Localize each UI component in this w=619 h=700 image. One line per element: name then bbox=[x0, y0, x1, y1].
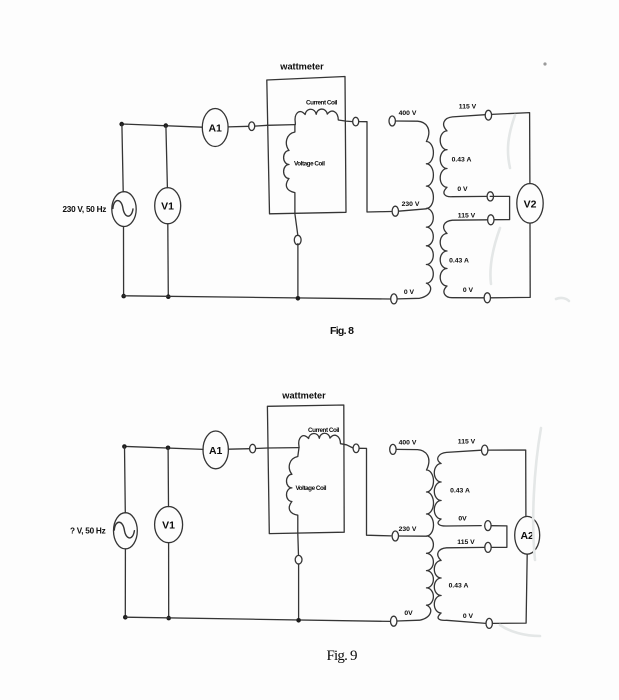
terminal 400V fig8 bbox=[389, 116, 395, 126]
transformer secondary winding 2 fig9 bbox=[434, 547, 486, 623]
wire left vertical upper fig8 bbox=[122, 124, 123, 192]
terminal 0V sec1 fig9 bbox=[485, 521, 491, 531]
terminal 0V sec1 fig8 bbox=[487, 192, 493, 201]
transformer primary coil fig9 bbox=[396, 449, 433, 621]
svg-text:Fig. 9: Fig. 9 bbox=[327, 648, 358, 664]
wire current coil terminal to 230V tap fig8 bbox=[359, 122, 391, 212]
node junction V1-bottom fig9 bbox=[166, 616, 171, 621]
svg-text:230 V, 50 Hz: 230 V, 50 Hz bbox=[63, 205, 107, 214]
wire 230V tap fig9 bbox=[399, 535, 427, 537]
node junction bottom-left fig8 bbox=[121, 294, 126, 299]
svg-text:wattmeter: wattmeter bbox=[281, 391, 326, 401]
svg-text:0.43 A: 0.43 A bbox=[449, 258, 469, 265]
wire bottom rail fig9 bbox=[125, 617, 390, 621]
terminal below wattmeter fig8 bbox=[294, 235, 301, 244]
terminal after A1 fig8 bbox=[249, 122, 255, 131]
current coil W1 fig8 bbox=[295, 99, 353, 124]
svg-text:0 V: 0 V bbox=[457, 186, 468, 193]
svg-text:V1: V1 bbox=[161, 201, 174, 213]
svg-text:230 V: 230 V bbox=[402, 201, 420, 208]
current coil W2 fig9 bbox=[299, 427, 353, 448]
wire A1 to terminal fig8 bbox=[228, 125, 249, 128]
node junction bottom-left fig9 bbox=[123, 615, 128, 620]
voltmeter V2 fig8 bbox=[517, 184, 543, 224]
svg-text:? V, 50 Hz: ? V, 50 Hz bbox=[70, 526, 106, 535]
wire A1 to terminal fig9 bbox=[228, 448, 249, 451]
wire V1 bottom vertical fig8 bbox=[167, 224, 170, 297]
svg-text:0 V: 0 V bbox=[463, 613, 474, 620]
svg-text:V1: V1 bbox=[162, 520, 175, 532]
terminal current coil output fig9 bbox=[353, 444, 359, 453]
svg-text:400 V: 400 V bbox=[399, 110, 417, 117]
terminal 400V fig9 bbox=[390, 444, 396, 454]
wire voltage coil to bottom rail fig8 bbox=[297, 244, 299, 298]
svg-text:0.43 A: 0.43 A bbox=[449, 583, 469, 590]
wire link sec1-0V to sec2-115V fig9 bbox=[491, 526, 507, 548]
wire V1 top vertical fig8 bbox=[166, 126, 168, 188]
transformer secondary winding 1 fig9 bbox=[434, 450, 481, 526]
transformer secondary winding 1 fig8 bbox=[440, 115, 487, 197]
svg-text:0 V: 0 V bbox=[404, 289, 415, 296]
terminal after A1 fig9 bbox=[250, 444, 256, 453]
wire terminal to wattmeter fig9 bbox=[256, 447, 268, 450]
voltmeter V1 fig9 bbox=[155, 506, 183, 542]
wire V2 top branch fig8 bbox=[492, 113, 530, 184]
wire 230V tap fig8 bbox=[399, 209, 427, 211]
svg-text:Voltage Coil: Voltage Coil bbox=[296, 485, 327, 492]
ac source G1 230V 50Hz bbox=[112, 192, 136, 227]
svg-text:Current Coil: Current Coil bbox=[308, 427, 340, 434]
svg-text:115 V: 115 V bbox=[458, 213, 476, 220]
terminal 115V sec2 fig8 bbox=[488, 215, 494, 225]
node junction V1-top fig9 bbox=[166, 446, 171, 451]
terminal below wattmeter fig9 bbox=[295, 555, 302, 564]
scan speck artifact bbox=[543, 62, 546, 65]
wire left vertical upper fig9 bbox=[124, 447, 127, 513]
svg-text:0V: 0V bbox=[458, 516, 467, 523]
terminal 0V sec2 fig8 bbox=[484, 293, 490, 303]
svg-text:Fig. 8: Fig. 8 bbox=[330, 325, 354, 337]
svg-text:115 V: 115 V bbox=[459, 103, 477, 110]
wire voltage coil to bottom rail fig9 bbox=[298, 564, 300, 620]
svg-text:wattmeter: wattmeter bbox=[279, 62, 324, 72]
wire wattmeter input fig8 bbox=[267, 124, 295, 127]
wattmeter box fig9 bbox=[267, 405, 344, 534]
transformer primary coil fig8 bbox=[395, 121, 433, 299]
svg-text:0 V: 0 V bbox=[463, 287, 474, 294]
svg-text:0.43 A: 0.43 A bbox=[452, 157, 472, 164]
wire top rail fig8 bbox=[122, 124, 203, 127]
wire link sec1-0V to sec2-115V fig8 bbox=[490, 196, 509, 219]
terminal 115V sec1 fig9 bbox=[482, 445, 488, 455]
wire current coil terminal to 230V tap fig9 bbox=[359, 448, 391, 536]
wire A2 top branch fig9 bbox=[488, 450, 526, 517]
terminal 0V sec2 fig9 bbox=[486, 618, 492, 628]
svg-text:230 V: 230 V bbox=[399, 526, 417, 533]
node junction top-left fig9 bbox=[122, 444, 127, 449]
svg-text:115 V: 115 V bbox=[458, 439, 476, 446]
wire left vertical lower fig9 bbox=[124, 549, 126, 617]
ammeter A2 fig9 bbox=[515, 516, 540, 554]
ac source G2 ?V 50Hz bbox=[114, 513, 138, 549]
wattmeter box fig8 bbox=[267, 77, 346, 214]
voltage coil W1 fig8 bbox=[284, 125, 326, 236]
wire bottom rail fig8 bbox=[124, 296, 391, 299]
node junction V1-top fig8 bbox=[164, 123, 169, 128]
svg-text:0V: 0V bbox=[404, 610, 413, 617]
wire A2 bottom branch fig9 bbox=[492, 554, 527, 623]
wire V1 top vertical fig9 bbox=[167, 448, 169, 507]
terminal 115V sec1 fig8 bbox=[485, 110, 491, 120]
node junction top-left fig8 bbox=[119, 122, 124, 127]
scan smudge arcs bbox=[490, 115, 569, 636]
transformer secondary winding 2 fig8 bbox=[440, 220, 487, 298]
voltmeter V1 fig8 bbox=[155, 188, 181, 224]
terminal 0V primary fig8 bbox=[391, 294, 397, 304]
svg-text:Current Coil: Current Coil bbox=[306, 99, 338, 106]
terminal 230V fig9 bbox=[392, 531, 398, 541]
voltage coil W2 fig9 bbox=[287, 448, 327, 556]
terminal 115V sec2 fig9 bbox=[485, 542, 491, 552]
svg-text:400 V: 400 V bbox=[399, 440, 417, 447]
wire terminal to wattmeter fig8 bbox=[255, 124, 268, 127]
node junction voltage-coil bottom fig9 bbox=[296, 618, 301, 623]
wire wattmeter input fig9 bbox=[268, 447, 299, 449]
svg-text:V2: V2 bbox=[524, 198, 537, 210]
ammeter A1 fig8 bbox=[202, 109, 228, 147]
node junction V1-bottom fig8 bbox=[166, 294, 171, 299]
terminal 230V fig8 bbox=[392, 206, 398, 216]
wire V2 bottom branch fig8 bbox=[491, 223, 531, 298]
svg-text:A1: A1 bbox=[209, 445, 223, 457]
wire top rail fig9 bbox=[124, 446, 203, 449]
svg-text:A1: A1 bbox=[208, 122, 222, 134]
svg-text:115 V: 115 V bbox=[457, 539, 475, 546]
terminal current coil output fig8 bbox=[353, 117, 359, 126]
terminal 0V primary fig9 bbox=[391, 616, 397, 626]
wire left vertical lower fig8 bbox=[123, 227, 125, 297]
wire V1 bottom vertical fig9 bbox=[168, 543, 170, 618]
node junction voltage-coil bottom fig8 bbox=[296, 296, 301, 301]
svg-text:0.43 A: 0.43 A bbox=[450, 488, 470, 495]
svg-text:Voltage Coil: Voltage Coil bbox=[294, 160, 325, 167]
ammeter A1 fig9 bbox=[203, 431, 228, 469]
